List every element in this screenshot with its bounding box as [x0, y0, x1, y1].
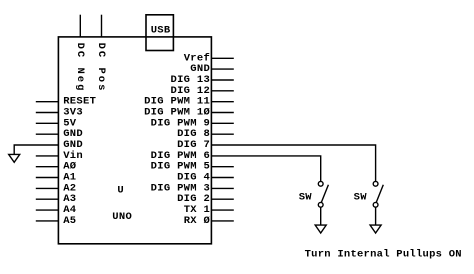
pin GND (left 4): [36, 128, 83, 140]
pin RX 0 (right 16): [184, 215, 234, 227]
svg-text:A5: A5: [63, 215, 76, 227]
pin DIG 12 (right 4): [170, 85, 233, 97]
pin DIG 7 (right 9): [177, 139, 210, 151]
pin DIG 2 (right 14): [177, 193, 234, 205]
svg-text:UNO: UNO: [112, 211, 132, 223]
svg-text:U: U: [117, 185, 124, 197]
pin 3V3 (left 2): [36, 107, 83, 119]
svg-text:DC Pos: DC Pos: [95, 43, 107, 93]
wire SW (right) to ground: [375, 207, 377, 225]
pin RESET (left 1): [36, 96, 96, 108]
pin DIG PWM 5 (right 11): [151, 161, 234, 173]
wire DIG PWM 6 to SW (left switch): [211, 156, 320, 182]
pin DIG PWM 10 (right 6): [144, 107, 234, 119]
USB connector: [146, 15, 173, 51]
pin DIG PWM 11 (right 5): [144, 96, 234, 108]
ground (left): [9, 154, 20, 162]
pin DIG PWM 6 (right 10): [151, 150, 210, 162]
pin DIG PWM 9 (right 7): [151, 117, 234, 129]
pin 5V (left 3): [36, 117, 77, 129]
pin A2 (left 9): [36, 182, 77, 194]
svg-text:SW: SW: [354, 192, 368, 204]
svg-text:SW: SW: [299, 192, 313, 204]
svg-text:RX Ø: RX Ø: [184, 215, 211, 227]
pin DC Pos: [95, 15, 107, 93]
pin DC Neg: [74, 15, 86, 93]
ground below SW (right): [370, 225, 381, 233]
pin A0 (left 7): [36, 161, 77, 173]
pin DIG 8 (right 8): [177, 128, 234, 140]
IC U (Arduino UNO) body: [58, 37, 211, 244]
pin A4 (left 11): [36, 204, 77, 216]
wire DIG 7 to SW (right switch): [211, 145, 375, 181]
ground below SW (left): [315, 225, 326, 233]
wire GND to left ground: [14, 145, 58, 154]
switch SW (left): [299, 181, 329, 207]
pin A5 (left 12): [36, 215, 77, 227]
pin DIG PWM 3 (right 13): [151, 182, 234, 194]
pin DIG 13 (right 3): [170, 74, 233, 86]
pin TX 1 (right 15): [184, 204, 234, 216]
pin Vref (right 1): [184, 52, 234, 64]
svg-text:DC Neg: DC Neg: [74, 43, 86, 93]
wire SW (left) to ground: [320, 207, 322, 225]
pin Vin (left 6): [36, 150, 83, 162]
pin GND (left 5): [63, 139, 83, 151]
pin A3 (left 10): [36, 193, 77, 205]
pin GND (right 2): [190, 63, 234, 75]
pin DIG 4 (right 12): [177, 172, 234, 184]
pin A1 (left 8): [36, 172, 77, 184]
switch SW (right): [354, 181, 384, 207]
svg-text:USB: USB: [151, 25, 171, 37]
svg-text:Turn Internal Pullups ON: Turn Internal Pullups ON: [305, 249, 462, 261]
